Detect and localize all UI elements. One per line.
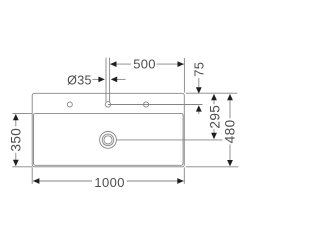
extension line drain axis right [117, 139, 223, 141]
dim 295 upper stub [213, 100, 215, 104]
drain inner circle [104, 136, 112, 144]
extension line 350 top [12, 112, 32, 114]
extension line rear edge right [186, 92, 238, 94]
svg-text:350: 350 [9, 128, 24, 152]
arrow Ø35 pointing right [98, 77, 104, 83]
arrow Ø35 pointing left [111, 77, 117, 83]
drain middle circle [102, 134, 114, 146]
tail line right of Ø35 arrows [117, 78, 126, 80]
dim 480 upper stub [229, 100, 231, 118]
dim 350 lower stub [15, 153, 17, 160]
arrow 480 down [227, 160, 233, 166]
dim 75 lower stub [198, 111, 200, 114]
extension line tap hole axis right [108, 104, 203, 106]
arrow 350 down [13, 160, 19, 166]
tap hole center [105, 102, 110, 107]
dim 350 upper stub [15, 120, 17, 127]
dim 480 lower stub [229, 145, 231, 161]
arrow 75 up [196, 105, 202, 111]
extension line left edge down for 1000 [31, 167, 33, 184]
extension line 350 bottom [12, 166, 32, 168]
leader line from Ø35 label [93, 78, 99, 80]
drain outer circle [100, 132, 117, 149]
tap hole right [144, 102, 149, 107]
extension line front edge right [186, 166, 239, 168]
arrow 1000 right [177, 178, 183, 184]
arrow 500 left [110, 61, 116, 67]
arrow 75 down [196, 87, 202, 93]
dim line 500 right segment [157, 63, 185, 65]
svg-text:480: 480 [223, 119, 238, 143]
basin inner bowl [34, 113, 184, 165]
svg-text:75: 75 [192, 62, 207, 77]
extension line right edge down for 1000 [183, 167, 185, 184]
tap hole leader line right [109, 58, 111, 102]
svg-text:295: 295 [207, 105, 222, 129]
tap hole left [67, 102, 72, 107]
svg-text:500: 500 [133, 57, 156, 72]
dim line 1000 right segment [127, 180, 184, 182]
dim line 500 left segment [110, 63, 131, 65]
extension line right edge up for 500 [183, 58, 185, 93]
basin outer rim [32, 93, 184, 167]
svg-text:1000: 1000 [94, 175, 125, 190]
svg-text:Ø35: Ø35 [67, 74, 92, 88]
arrow 480 up [227, 94, 233, 100]
dim 295 lower stub [213, 129, 215, 133]
arrow 295 up [211, 94, 217, 100]
arrow 1000 left [33, 178, 39, 184]
dim 75 upper stub [198, 78, 200, 88]
arrow 350 up [13, 114, 19, 120]
arrow 500 right [178, 61, 184, 67]
arrow 295 down [211, 133, 217, 139]
tap hole leader line left [105, 58, 107, 102]
dim line 1000 left segment [33, 180, 92, 182]
